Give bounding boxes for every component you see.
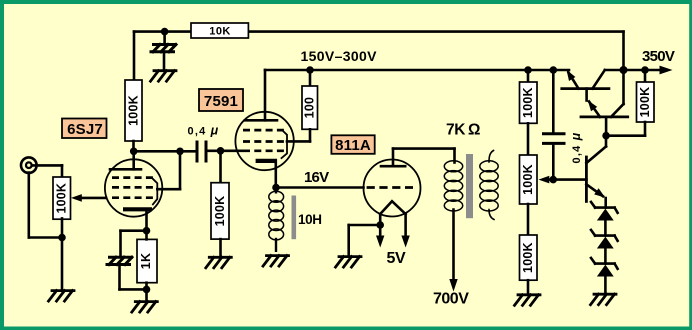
- wire grid to volume pot (with arrow): [76, 197, 106, 200]
- svg-text:7591: 7591: [204, 93, 238, 110]
- 811A plate lead: [392, 149, 395, 167]
- svg-text:100K: 100K: [521, 164, 535, 195]
- wire 350V rail with arrow: [624, 69, 663, 72]
- node: 350V junction: [620, 66, 628, 74]
- wire 0.4u cap bottom to wiper node: [552, 145, 555, 180]
- transformer core: [466, 154, 473, 218]
- 6SJ7 grid 3 (dashed): [112, 196, 154, 199]
- resistor R 100K (6SJ7 plate load): [125, 80, 142, 141]
- svg-text:7KΩ: 7KΩ: [446, 122, 480, 139]
- node: wiper / Q3 base node: [549, 176, 557, 184]
- choke core: [292, 196, 297, 240]
- zener diode Z3: [591, 258, 618, 277]
- resistor 100K (divider bottom): [520, 235, 538, 280]
- wire grid resistor to ground: [219, 239, 222, 257]
- 7591 cathode: [256, 159, 277, 163]
- wire primary bottom to 700V arrow: [452, 210, 455, 284]
- wire bypass cap to bottom: [118, 266, 121, 290]
- zener diode Z2: [591, 230, 618, 249]
- node: Q2 base node: [602, 132, 610, 140]
- tube 7591 envelope: [235, 112, 293, 170]
- 6SJ7 screen bracket: [152, 178, 157, 204]
- ground (choke): [263, 256, 289, 267]
- wire coupling cap to 7591 grid: [206, 150, 242, 153]
- ground (6SJ7 cathode): [132, 302, 158, 313]
- tube 6SJ7 envelope: [105, 159, 162, 216]
- resistor 100 (screen): [302, 86, 318, 129]
- filament leg right with arrow: [404, 214, 407, 239]
- transformer primary lead: [453, 149, 456, 163]
- wire jack to pot top: [32, 164, 62, 167]
- node: 100K right tap: [641, 66, 649, 74]
- wire 150V-300V rail: [265, 69, 569, 72]
- wire Z3 to ground: [604, 277, 607, 295]
- transistor Q3: [586, 136, 606, 208]
- wire plate node to coupling cap: [134, 150, 197, 153]
- wire cathode bypass branch top: [121, 229, 147, 232]
- wire to ground: [145, 289, 148, 301]
- svg-text:100: 100: [303, 97, 317, 118]
- wire jack shell to pot bottom: [29, 236, 62, 239]
- resistor 10K: [191, 23, 248, 38]
- potentiometer 100K (input): [53, 177, 71, 219]
- svg-text:100K: 100K: [54, 183, 68, 214]
- node: pot bottom junction: [58, 234, 66, 242]
- 6SJ7 plate: [110, 168, 141, 171]
- node: 1K bottom: [143, 286, 151, 294]
- wire rail to divider R top: [527, 70, 530, 82]
- 811A filament: [380, 201, 405, 214]
- ground (zener chain): [591, 294, 617, 305]
- wire wiper node to Q3 base: [553, 178, 586, 181]
- wire divider top to pot: [527, 123, 530, 155]
- resistor 100K (7591 grid leak): [211, 183, 229, 239]
- node: screen dropper tap: [306, 66, 314, 74]
- wire 16V node to 811A grid: [276, 186, 364, 189]
- ground (7591 grid leak): [206, 257, 232, 268]
- wire plate resistor to plate node: [132, 141, 135, 151]
- wire capacitor to ground: [163, 53, 166, 70]
- 811A grid (dashed): [367, 186, 413, 189]
- wire Z1 to Z2: [604, 221, 607, 236]
- wire screen tap into tube: [157, 188, 180, 191]
- capacitor (electrolytic, decoupling): [151, 45, 176, 52]
- wire down into pot: [61, 165, 64, 177]
- svg-text:350V: 350V: [642, 48, 675, 65]
- svg-text:0,4 μ: 0,4 μ: [188, 124, 220, 138]
- filament leg left with arrow: [379, 214, 382, 239]
- svg-text:700V: 700V: [433, 291, 469, 308]
- wire from top rail down to plate resistor R2: [133, 32, 136, 80]
- ground (811A filament): [336, 257, 362, 268]
- node: rail tap for divider: [524, 66, 532, 74]
- 7591 grid 1 (dashed): [243, 129, 285, 132]
- transistor Q1: [562, 70, 624, 101]
- wire 811A plate to transformer: [393, 147, 455, 150]
- arrow onto pot: [71, 194, 82, 202]
- 6SJ7 grid 2 (dashed): [112, 186, 154, 189]
- svg-text:100K: 100K: [213, 196, 227, 227]
- label 6SJ7: [62, 119, 107, 139]
- capacitor 0.4u coupling: [197, 141, 206, 163]
- svg-text:5V: 5V: [387, 250, 406, 267]
- wire 0.4u cap top: [552, 70, 555, 132]
- 7591 plate lead to rail: [264, 70, 267, 120]
- svg-text:150V–300V: 150V–300V: [301, 48, 378, 64]
- ground (divider): [515, 295, 541, 306]
- 6SJ7 grid 1 (dashed): [112, 176, 154, 179]
- ground (top decoupling): [151, 71, 177, 82]
- wire screen tap down: [179, 151, 182, 189]
- 7591 screen bracket: [282, 130, 288, 158]
- 811A plate: [381, 165, 405, 168]
- wire to 100K right: [644, 70, 647, 82]
- wire top rail right segment: [248, 30, 624, 33]
- label 811A: [331, 135, 374, 154]
- svg-text:100K: 100K: [521, 87, 535, 118]
- node: 7591 grid: [217, 147, 225, 155]
- node: 16V cathode node: [272, 184, 280, 192]
- wire rail to 100 ohm: [309, 70, 312, 86]
- 7591 grid 3 (dashed): [243, 149, 285, 152]
- wire 1K to bottom node: [145, 283, 148, 290]
- node: filament left tap: [376, 221, 384, 229]
- node: 6SJ7 cathode junction: [143, 227, 151, 235]
- node: 6SJ7 plate node: [130, 148, 138, 156]
- wire pot to divider bottom R: [527, 204, 530, 235]
- zener diode Z1: [591, 202, 618, 221]
- resistor 100K (divider top): [520, 82, 538, 123]
- wire cathode node into 1K: [145, 231, 148, 240]
- wire jack shell down: [27, 173, 30, 238]
- wire Z2 to Z3: [604, 249, 607, 264]
- wire bypass bottom to node: [120, 288, 147, 291]
- transformer secondary winding: [480, 151, 498, 220]
- svg-text:1K: 1K: [139, 253, 153, 269]
- label 7591: [199, 89, 243, 111]
- capacitor 0.4u (right): [542, 134, 566, 144]
- node: rail tap for 0.4u cap: [550, 66, 558, 74]
- wire from node to decoupling capacitor: [163, 32, 166, 44]
- svg-text:0,4 μ: 0,4 μ: [569, 132, 583, 164]
- node: top decoupling tap: [161, 28, 169, 36]
- inductor 10H choke: [269, 188, 284, 251]
- capacitor (electrolytic, cathode bypass): [107, 257, 132, 264]
- wire down to ground: [347, 225, 350, 256]
- resistor 100K (right): [637, 82, 655, 122]
- wiper arrow onto pot: [544, 178, 553, 181]
- wire top rail left segment: [134, 30, 191, 33]
- transistor Q2: [581, 70, 628, 136]
- svg-text:6SJ7: 6SJ7: [67, 121, 103, 138]
- svg-text:16V: 16V: [304, 169, 329, 186]
- 7591 grid 2 (dashed): [243, 140, 285, 143]
- tube 811A envelope: [364, 160, 421, 217]
- svg-text:100K: 100K: [521, 242, 535, 273]
- wire grid node down to grid resistor: [219, 151, 222, 183]
- wire bypass branch down: [119, 231, 122, 256]
- svg-text:10H: 10H: [298, 212, 322, 227]
- wire pot bottom to ground: [61, 218, 64, 290]
- transformer primary winding: [444, 161, 462, 211]
- 6SJ7 cathode: [123, 207, 152, 211]
- resistor 1K (cathode): [137, 239, 157, 282]
- svg-text:100K: 100K: [638, 87, 652, 118]
- potentiometer 100K (divider middle): [520, 155, 538, 204]
- wire 100K right to Q2 base node: [644, 122, 647, 136]
- svg-text:100K: 100K: [127, 95, 141, 126]
- wire divider bottom to ground: [527, 280, 530, 294]
- node: screen tap junction: [176, 148, 184, 156]
- svg-text:10K: 10K: [209, 26, 230, 38]
- 7591 cathode lead: [274, 161, 277, 188]
- 6SJ7 cathode lead: [145, 209, 148, 230]
- ground (input pot): [49, 291, 75, 302]
- wire top rail drop to 350V node: [622, 32, 625, 70]
- wire 100 ohm to screen: [309, 129, 312, 141]
- input jack: [21, 157, 37, 173]
- wire screen horizontal into tube: [287, 140, 310, 143]
- 7591 plate: [245, 119, 277, 122]
- svg-text:811A: 811A: [335, 137, 371, 154]
- wire filament tap left: [349, 224, 381, 227]
- 6SJ7 plate lead: [132, 151, 135, 169]
